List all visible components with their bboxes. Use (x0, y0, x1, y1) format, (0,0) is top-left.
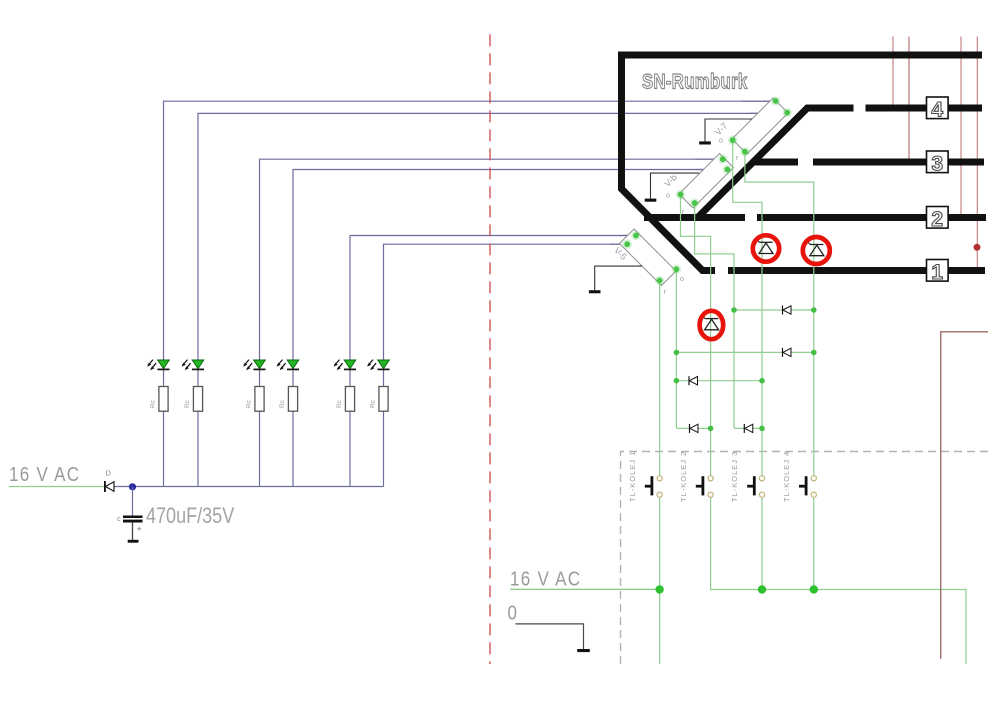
label box track 4 (927, 97, 949, 121)
svg-text:2: 2 (931, 208, 943, 231)
svg-text:0: 0 (508, 601, 517, 624)
wire green D (V-b r into diode matrix) (695, 203, 734, 428)
svg-text:16 V AC: 16 V AC (510, 567, 581, 590)
ground (capacitor) (128, 540, 139, 543)
LED LED3 (243, 360, 265, 371)
wire green AC feed (top left) (9, 486, 104, 488)
wire green E (V-7 o to button 3) (733, 140, 762, 589)
wire w5 stub over V-5 (618, 235, 636, 237)
wire w4 (blue L to V-b pin b) (293, 170, 727, 487)
svg-text:Rc: Rc (370, 399, 377, 408)
wire w2 (blue L to V-7 pin b) (198, 113, 787, 486)
signal red line 3 (960, 37, 962, 215)
resistor Rc4 (279, 387, 298, 412)
svg-text:c: c (117, 514, 121, 523)
track 3 segments (753, 159, 984, 166)
LED LED5 (334, 360, 356, 371)
svg-text:TL-KOLEJ 1: TL-KOLEJ 1 (628, 451, 637, 502)
wire green F (V-7 r to button 4) (745, 152, 814, 590)
wire matrix row2 (676, 351, 813, 353)
node blue junction (129, 483, 136, 490)
thyristor circled T2 (track 1 right) (803, 237, 830, 264)
ground (V-5) (589, 266, 642, 293)
svg-text:Rc: Rc (184, 399, 191, 408)
svg-text:TL-KOLEJ 2: TL-KOLEJ 2 (679, 451, 688, 502)
svg-text:470uF/35V: 470uF/35V (146, 504, 235, 528)
thyristor circled T3 (matrix) (700, 311, 724, 339)
resistor Rc1 (150, 387, 169, 412)
diode matrix d4 (690, 424, 699, 433)
LED LED2 (182, 360, 204, 371)
track 4 right segment (866, 105, 983, 112)
wire matrix row3 (676, 380, 762, 382)
boundary red dashed line (489, 34, 491, 664)
thyristor circled T1 (track 1 left) (753, 235, 779, 261)
switch V-5 module (612, 229, 676, 286)
wire w6 stub over V-5 (610, 243, 627, 245)
LED LED6 (367, 360, 389, 371)
wire brown feeder (941, 332, 988, 659)
svg-text:Rc: Rc (150, 399, 157, 408)
svg-text:SN-Rumburk: SN-Rumburk (642, 71, 748, 94)
wire w3 stub over V-b (695, 158, 723, 160)
wire w5 (blue L to V-5 pin a) (350, 236, 636, 487)
ground (V-b) (645, 173, 699, 202)
wire green AC rail (bottom left) (510, 588, 660, 590)
LED LED4 (277, 360, 299, 371)
diode matrix d1 (783, 306, 792, 315)
track layout main outline (top line, left vertical, crossover diagonal, track 1 stub) (622, 55, 983, 271)
wire green C (V-b o to button 2 and AC rail) (681, 195, 967, 665)
wire w3 (blue L to V-b pin a) (260, 159, 723, 486)
pushbutton TL-KOLEJ 1 (628, 451, 662, 502)
LED LED1 (147, 360, 169, 371)
switch V-b module (662, 154, 733, 209)
diode matrix d2 (783, 348, 792, 357)
svg-text:Rc: Rc (246, 399, 253, 408)
svg-text:Rc: Rc (336, 399, 343, 408)
track 1 right segment (728, 267, 985, 274)
track 2 segments (644, 214, 986, 221)
wire w1 stub over V-7 (742, 100, 776, 102)
node matrix junction dots (674, 307, 817, 431)
resistor Rc5 (336, 387, 355, 412)
ground (V-7) (699, 119, 752, 145)
pushbutton TL-KOLEJ 3 (730, 451, 765, 502)
resistor Rc6 (370, 387, 389, 412)
capacitor C 470uF/35V (117, 487, 143, 540)
svg-text:16 V AC: 16 V AC (9, 463, 80, 486)
pushbutton TL-KOLEJ 4 (782, 451, 816, 502)
svg-text:Rc: Rc (279, 399, 286, 408)
wire matrix row1 (734, 309, 814, 311)
svg-text:1: 1 (931, 261, 943, 284)
svg-text:4: 4 (931, 98, 943, 121)
wire matrix row4b (734, 427, 762, 429)
node V-7 pins (728, 96, 792, 156)
label box track 1 (927, 260, 949, 284)
wire green B (V-5 o into diode matrix) (675, 269, 677, 428)
node bottom rail dots (655, 585, 818, 593)
wire w1 (blue L to V-7 pin a) (164, 101, 776, 486)
node red dot (974, 244, 981, 251)
svg-text:+: + (137, 524, 142, 534)
resistor Rc3 (246, 387, 265, 412)
ground (0 rail) (577, 649, 590, 652)
diode matrix d3 (689, 376, 698, 385)
wire w6 (blue L to V-5 pin b) (384, 244, 628, 486)
boundary gray dashed (621, 452, 990, 665)
wire green A (V-5 r to button 1 and bottom) (659, 281, 661, 664)
diode matrix d5 (744, 424, 753, 433)
node V-b pins (676, 154, 732, 207)
wire w4 stub over V-b (695, 169, 727, 171)
pushbutton TL-KOLEJ 2 (679, 451, 713, 502)
signal red line 1 (892, 37, 894, 106)
label box track 2 (927, 207, 949, 231)
svg-text:o: o (719, 138, 723, 145)
diode D (105, 469, 114, 493)
svg-text:TL-KOLEJ 3: TL-KOLEJ 3 (730, 451, 739, 502)
switch V-7 module (713, 98, 788, 154)
wire w2 stub over V-7 (750, 112, 787, 114)
svg-text:o: o (680, 276, 684, 283)
wire blue bus (113, 486, 384, 488)
svg-text:TL-KOLEJ 4: TL-KOLEJ 4 (782, 451, 791, 502)
svg-text:D: D (106, 469, 112, 478)
wire 0 rail (515, 624, 583, 649)
svg-text:o: o (666, 193, 670, 200)
svg-text:3: 3 (931, 152, 943, 175)
signal red line 4 (976, 37, 978, 268)
label box track 3 (927, 151, 949, 175)
resistor Rc2 (184, 387, 203, 412)
node V-5 pins (622, 231, 681, 286)
track diagonal to track 4 (697, 108, 853, 218)
wire matrix row4a (676, 427, 710, 429)
signal red line 2 (908, 37, 910, 160)
